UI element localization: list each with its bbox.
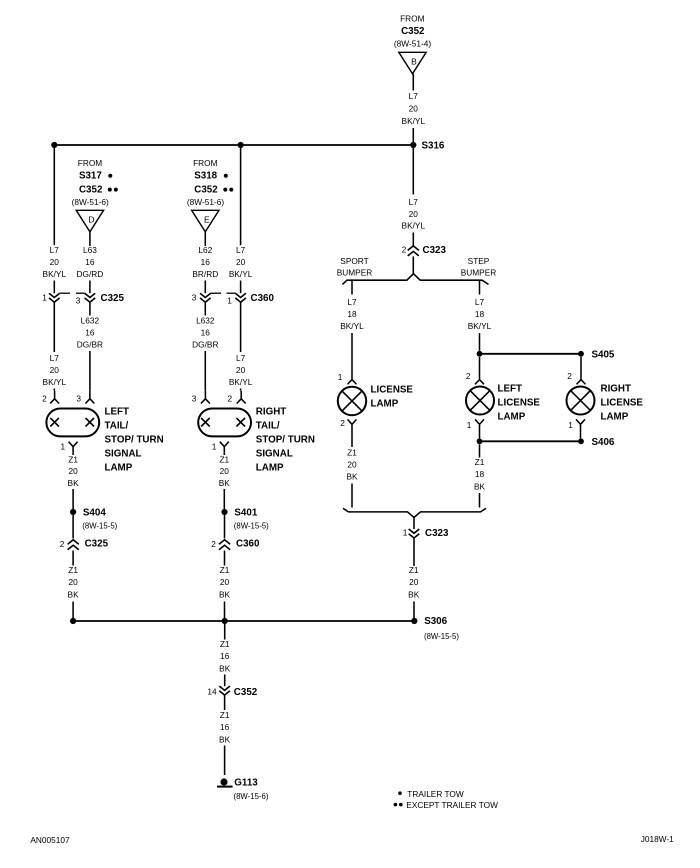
wire L7 from triangle B to S316 [402,74,426,145]
svg-text:C352: C352 [194,185,218,196]
svg-text:S316: S316 [422,141,445,152]
splice S306 junction dots [70,618,417,624]
label S306 [424,616,459,641]
connector C360 pins 3 and 1 [192,292,275,305]
footer code J018W-1 [641,834,674,844]
ground G113 symbol [217,778,233,786]
wire Z1 license lamp to merge [346,431,358,508]
wire Z1 S406 to merge [474,444,486,507]
svg-text:20: 20 [347,460,357,470]
svg-text:C325: C325 [85,539,109,550]
svg-text:20: 20 [50,365,60,375]
wire Z1 C325 to S306 [68,551,80,622]
svg-text:20: 20 [220,466,230,476]
svg-text:FROM: FROM [78,158,103,168]
svg-text:BK: BK [408,590,420,600]
svg-text:LAMP: LAMP [105,462,133,473]
svg-text:20: 20 [409,577,419,587]
svg-text:TAIL/: TAIL/ [105,420,129,431]
terminal pin 1 of right license lamp [568,419,585,430]
label S401 [234,508,269,531]
svg-text:LAMP: LAMP [371,398,399,409]
connector triangle D (from S317/C352) [76,210,103,232]
svg-text:18: 18 [475,469,485,479]
svg-text:C352: C352 [234,687,258,698]
svg-text:RIGHT: RIGHT [256,407,286,418]
svg-text:BUMPER: BUMPER [337,268,373,278]
lamp LICENSE LAMP [338,385,414,416]
svg-text:BK: BK [219,478,231,488]
svg-text:SIGNAL: SIGNAL [256,448,293,459]
wire L632 from C325 [77,302,103,391]
svg-text:2: 2 [402,245,407,255]
svg-text:L7: L7 [409,91,419,101]
label FROM S317 / C352 (8W-51-6) [72,158,109,207]
svg-text:BK: BK [346,472,358,482]
label S316 [422,141,445,152]
terminal pin 1 of left tail lamp [60,441,77,452]
wire Z1 right tail lamp to S401 [219,453,231,509]
svg-text:BK/YL: BK/YL [340,321,364,331]
svg-text:DG/RD: DG/RD [77,269,104,279]
svg-text:3: 3 [76,393,81,403]
svg-text:Z1: Z1 [409,565,419,575]
connector C325 pins 1 and 3 [42,292,124,305]
svg-text:SIGNAL: SIGNAL [105,448,142,459]
svg-text:LAMP: LAMP [601,412,629,423]
svg-text:LAMP: LAMP [256,462,284,473]
terminal pin 1 of left license lamp [467,419,484,430]
svg-text:1: 1 [42,292,47,302]
wire S405 to right license lamp [567,357,585,384]
wire right license lamp to S406 [580,431,582,439]
svg-text:1: 1 [568,420,573,430]
lamp RIGHT TAIL/STOP/TURN SIGNAL LAMP body [198,409,251,437]
wire L63 from triangle D [77,232,104,293]
svg-text:Z1: Z1 [68,455,78,465]
svg-text:(8W-15-5): (8W-15-5) [234,522,269,531]
svg-text:LICENSE: LICENSE [371,385,414,396]
label LEFT TAIL/STOP/TURN SIGNAL LAMP [105,407,164,474]
svg-text:1: 1 [227,296,232,306]
svg-text:18: 18 [347,309,357,319]
svg-text:BK/YL: BK/YL [402,116,426,126]
svg-text:DG/BR: DG/BR [192,340,218,350]
svg-text:L7: L7 [347,297,357,307]
svg-text:C360: C360 [251,293,275,304]
svg-text:BK/YL: BK/YL [43,377,67,387]
marker dot trailer-tow (S317) [108,174,112,178]
harness split bracket [342,274,488,285]
harness merge bracket [343,508,486,517]
svg-text:20: 20 [236,257,246,267]
svg-text:Z1: Z1 [475,457,485,467]
junction dot on S316 bus [238,142,244,148]
svg-text:G113: G113 [234,778,258,789]
label S404 [82,508,117,531]
svg-text:(8W-51-6): (8W-51-6) [72,197,109,207]
svg-text:1: 1 [60,441,65,451]
svg-text:BK: BK [219,590,231,600]
svg-text:C352: C352 [79,185,103,196]
wire L7 step branch [468,281,492,351]
marker dot trailer-tow (S318) [224,174,228,178]
svg-text:J018W-1: J018W-1 [641,834,674,844]
svg-text:FROM: FROM [400,14,425,24]
label S406 [592,437,615,448]
splice S404 junction dot [70,509,76,515]
svg-text:2: 2 [567,371,572,381]
wire Z1 C352 to G113 [219,695,231,775]
svg-text:Z1: Z1 [220,565,230,575]
svg-text:20: 20 [50,257,60,267]
splice S405 junction [477,351,584,357]
svg-text:RIGHT: RIGHT [601,384,631,395]
wire L7 sport branch [340,281,364,372]
label STEP BUMPER [461,256,497,278]
svg-text:LEFT: LEFT [498,384,523,395]
splice S401 junction dot [221,509,227,515]
terminal pin 3 of right tail lamp [192,391,210,404]
label FROM C352 (8W-51-4) [394,14,431,49]
svg-text:BK/YL: BK/YL [229,269,253,279]
svg-text:L7: L7 [236,353,246,363]
label FROM S318 / C352 (8W-51-6) [187,158,224,207]
svg-text:LEFT: LEFT [105,407,130,418]
wire L62 from triangle E [192,232,218,293]
svg-text:S401: S401 [234,508,257,519]
svg-text:L7: L7 [50,245,60,255]
wire Z1 left tail lamp to S404 [68,453,80,509]
marker dots except-trailer-tow (C352 left) [108,188,118,192]
svg-text:BK: BK [219,735,231,745]
svg-text:BK/YL: BK/YL [43,269,67,279]
svg-text:(8W-15-6): (8W-15-6) [234,792,269,801]
svg-text:S317: S317 [79,171,102,182]
svg-text:BUMPER: BUMPER [461,268,497,278]
svg-text:(8W-15-5): (8W-15-5) [424,632,459,641]
svg-text:L7: L7 [475,297,485,307]
svg-text:C323: C323 [425,528,449,539]
footer code AN005107 [30,835,70,845]
svg-text:2: 2 [340,418,345,428]
wire L7 second outer lower [229,302,253,391]
svg-text:2: 2 [466,371,471,381]
svg-text:2: 2 [227,393,232,403]
svg-text:AN005107: AN005107 [30,835,70,845]
svg-text:BR/RD: BR/RD [192,269,218,279]
connector triangle E (from S318/C352) [192,210,219,232]
connector C352 pin 14 [207,686,257,698]
svg-text:16: 16 [201,328,211,338]
wire L7 left outer lower [43,302,67,391]
label SPORT BUMPER [337,256,373,278]
svg-text:20: 20 [68,466,78,476]
svg-text:(8W-51-6): (8W-51-6) [187,197,224,207]
svg-text:B: B [411,57,417,67]
connector C323 pin 2 [402,245,447,257]
svg-text:L7: L7 [236,245,246,255]
svg-text:1: 1 [212,441,217,451]
svg-text:L632: L632 [196,316,215,326]
wire bus S306 horizontal [73,620,414,622]
lamp LEFT TAIL/STOP/TURN SIGNAL LAMP body [46,409,99,437]
legend marker trailer tow [398,789,464,799]
svg-text:S318: S318 [194,171,217,182]
junction dot left end of S316 bus [51,142,57,148]
svg-text:16: 16 [85,328,95,338]
svg-text:L632: L632 [81,316,100,326]
svg-text:3: 3 [76,296,81,306]
svg-text:3: 3 [192,393,197,403]
terminal pin 2 of license lamp [340,418,356,430]
svg-text:(8W-15-5): (8W-15-5) [82,522,117,531]
svg-text:D: D [88,215,94,225]
wire Z1 S306 to C352 [219,624,231,686]
wire Z1 C360 to S306 [219,551,231,622]
svg-text:1: 1 [403,527,408,537]
wire L7 from S316 to C323 [402,145,426,246]
svg-text:16: 16 [220,651,230,661]
svg-text:16: 16 [201,257,211,267]
connector C323 pin 1 [403,518,449,539]
svg-text:2: 2 [42,393,47,403]
svg-text:S404: S404 [83,508,106,519]
legend marker except trailer tow [394,800,498,810]
svg-text:BK: BK [68,590,80,600]
wire L7 left outer upper [43,148,67,293]
svg-text:20: 20 [236,365,246,375]
svg-text:DG/BR: DG/BR [77,340,103,350]
svg-text:BK/YL: BK/YL [468,321,492,331]
svg-text:TAIL/: TAIL/ [256,420,280,431]
svg-text:BK: BK [474,482,486,492]
svg-text:16: 16 [220,722,230,732]
label S405 [592,349,615,360]
marker dots except-trailer-tow (C352 mid) [223,188,233,192]
svg-text:L7: L7 [50,353,60,363]
svg-text:STEP: STEP [468,256,490,266]
svg-text:STOP/ TURN: STOP/ TURN [256,434,315,445]
svg-text:1: 1 [338,372,343,382]
svg-text:14: 14 [207,687,217,697]
svg-text:Z1: Z1 [219,455,229,465]
svg-text:Z1: Z1 [220,710,230,720]
svg-text:L7: L7 [409,197,419,207]
svg-text:18: 18 [475,309,485,319]
svg-text:LICENSE: LICENSE [601,398,644,409]
label G113 [234,778,269,801]
svg-text:S406: S406 [592,437,615,448]
svg-text:C352: C352 [401,26,425,37]
svg-text:LAMP: LAMP [498,412,526,423]
wire Z1 C323 to S306 [408,538,420,621]
terminal pin 1 of right tail lamp [212,441,229,452]
svg-text:STOP/ TURN: STOP/ TURN [105,434,164,445]
svg-text:BK/YL: BK/YL [402,220,426,230]
terminal pin 2 of right tail lamp [227,391,245,404]
svg-text:Z1: Z1 [347,448,357,458]
terminal pin 3 of left tail lamp [76,391,94,404]
svg-text:FROM: FROM [193,158,218,168]
svg-text:E: E [204,215,210,225]
svg-text:16: 16 [85,257,95,267]
svg-text:EXCEPT TRAILER TOW: EXCEPT TRAILER TOW [406,800,498,810]
wire bus S316 horizontal [54,144,413,146]
lamp LEFT LICENSE LAMP [466,384,540,423]
svg-text:C323: C323 [423,245,447,256]
svg-text:C360: C360 [236,539,260,550]
svg-text:L62: L62 [198,245,212,255]
terminal pin 2 of left license lamp [466,357,484,384]
svg-text:20: 20 [409,104,419,114]
lamp RIGHT LICENSE LAMP [567,384,644,423]
connector C325 pin 2 [60,515,109,550]
wire L7 second outer upper [229,148,253,293]
svg-text:(8W-51-4): (8W-51-4) [394,38,431,48]
terminal pin 1 of license lamp [338,372,357,385]
svg-text:TRAILER TOW: TRAILER TOW [407,789,464,799]
svg-text:BK: BK [68,478,80,488]
svg-text:BK/YL: BK/YL [229,377,253,387]
splice S406 junction [477,431,584,445]
terminal pin 2 of left tail lamp [42,391,59,404]
wire L632 from C360 [192,302,218,391]
svg-text:BK: BK [219,664,231,674]
svg-text:SPORT: SPORT [340,256,368,266]
svg-text:1: 1 [467,420,472,430]
svg-text:L63: L63 [83,245,97,255]
svg-text:S306: S306 [424,616,447,627]
wire C323 to harness split [412,256,414,273]
svg-text:LICENSE: LICENSE [498,398,541,409]
connector C360 pin 2 [211,515,260,550]
svg-text:3: 3 [192,292,197,302]
svg-text:20: 20 [68,577,78,587]
svg-text:Z1: Z1 [220,639,230,649]
svg-text:Z1: Z1 [68,565,78,575]
svg-text:C325: C325 [101,293,125,304]
svg-text:S405: S405 [592,349,615,360]
label RIGHT TAIL/STOP/TURN SIGNAL LAMP [256,407,315,474]
svg-text:20: 20 [220,577,230,587]
splice S316 junction dot [410,142,416,148]
svg-text:2: 2 [60,539,65,549]
svg-text:20: 20 [409,209,419,219]
svg-text:2: 2 [211,539,216,549]
connector triangle B (from C352) [399,52,426,74]
